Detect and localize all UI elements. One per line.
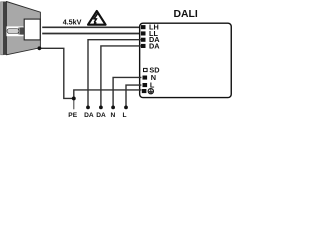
wire PE from lamp body bbox=[39, 48, 73, 98]
junction dot lamp PE bbox=[38, 46, 42, 50]
svg-text:DA: DA bbox=[149, 41, 160, 50]
wire N bbox=[113, 77, 141, 107]
terminal N bbox=[143, 76, 148, 80]
wire LH (lamp to LH terminal) bbox=[42, 26, 141, 28]
svg-text:DA: DA bbox=[96, 112, 106, 118]
svg-text:DA: DA bbox=[84, 112, 94, 118]
terminal DA lower bbox=[141, 44, 146, 48]
svg-text:N: N bbox=[111, 112, 116, 118]
lamp LA1 body bbox=[6, 2, 40, 55]
terminal SD (open) bbox=[144, 68, 148, 71]
svg-text:DALI: DALI bbox=[173, 9, 197, 20]
wire DA1 (upper DA terminal to mains) bbox=[88, 40, 141, 108]
terminal LH bbox=[141, 25, 146, 29]
node dot DA2 bbox=[99, 106, 103, 110]
wire PE stub down bbox=[73, 98, 75, 109]
node dot L bbox=[124, 106, 128, 110]
lamp LA1 bulb bbox=[7, 29, 19, 34]
wire LL (lamp to LL terminal) bbox=[42, 33, 141, 35]
wire earth terminal to PE junction bbox=[74, 90, 142, 99]
lamp LA1 face bbox=[1, 2, 4, 55]
lamp LA1 inner channel bbox=[6, 26, 24, 36]
terminal LL bbox=[141, 31, 146, 35]
wire DA2 (lower DA terminal to mains) bbox=[101, 46, 141, 107]
earth symbol in circle bbox=[148, 89, 153, 94]
lamp LA1 bulb base dark part bbox=[21, 28, 24, 35]
node dot N bbox=[111, 106, 115, 110]
wire L bbox=[126, 85, 141, 107]
lamp LA1 front bar bbox=[3, 2, 6, 55]
DALI control gear box bbox=[140, 23, 232, 97]
svg-text:4.5kV: 4.5kV bbox=[63, 18, 82, 27]
junction dot PE bbox=[72, 96, 76, 100]
svg-text:PE: PE bbox=[68, 112, 77, 118]
warning triangle W1 (high voltage) bbox=[88, 11, 106, 25]
terminal L bbox=[143, 83, 148, 87]
node dot DA1 bbox=[86, 106, 90, 110]
terminal DA upper bbox=[141, 38, 146, 42]
terminal PE earth bbox=[142, 89, 147, 93]
svg-text:L: L bbox=[122, 112, 126, 118]
lamp LA1 socket block bbox=[24, 19, 40, 40]
lamp LA1 bulb base bbox=[19, 28, 21, 34]
